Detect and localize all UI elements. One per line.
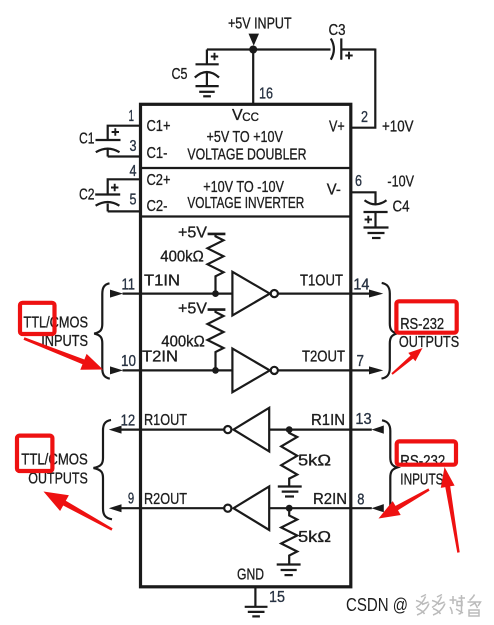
node T1IN pullup junction [212,290,219,297]
svg-text:GND: GND [237,567,264,584]
svg-text:T2IN: T2IN [142,349,178,366]
svg-text:1: 1 [129,108,135,125]
arrowhead pin 10 [110,366,123,374]
+5V input arrow down [249,34,260,46]
svg-text:C2-: C2- [147,198,168,215]
highlight box TTL inputs [20,303,55,334]
brace right outputs [382,283,397,379]
capacitor C4 [365,200,387,204]
svg-text:VOLTAGE DOUBLER: VOLTAGE DOUBLER [187,146,306,163]
resistor R 5k R1 [281,430,297,487]
capacitor C1 [108,126,141,140]
svg-text:2: 2 [361,109,368,126]
resistor R 5k R2 [281,508,297,564]
svg-text:5kΩ: 5kΩ [298,453,331,470]
svg-text:R1OUT: R1OUT [144,412,187,429]
highlight box RS-232 outputs [396,301,456,332]
node R1IN junction [286,426,293,433]
svg-text:6: 6 [355,173,362,190]
plus sign C4 [365,216,372,223]
inverter T2 triangle [232,349,269,393]
arrowhead pin 12 [109,426,122,434]
arrowhead pin 8 [372,504,384,512]
svg-text:T2OUT: T2OUT [302,349,345,366]
wire pin 6 [351,192,376,203]
wire T1IN row [123,293,233,295]
svg-text:INPUTS: INPUTS [400,471,443,488]
ground main at pin 15 [245,606,268,608]
svg-text:R2IN: R2IN [313,491,347,508]
wire right vertical to pin 2 [351,49,375,128]
resistor R 400k T2 [208,310,224,371]
ground for C4 [364,226,389,228]
svg-text:15: 15 [269,589,285,606]
svg-text:8: 8 [357,491,364,508]
wire R1IN row [269,429,372,431]
inverter T2 bubble [271,367,278,374]
svg-text:C2: C2 [79,187,95,204]
arrowhead pin 14 [369,290,383,298]
svg-text:+10V: +10V [382,119,414,136]
inverter T1 triangle [232,272,269,316]
svg-text:9: 9 [128,491,134,508]
wire R1OUT row [122,429,225,431]
+5V supply bar T1 [208,233,226,236]
capacitor C5 [206,50,208,65]
svg-text:RS-232: RS-232 [400,316,444,333]
svg-text:C4: C4 [393,199,410,216]
svg-text:T1OUT: T1OUT [300,273,343,290]
red arrow to RS-232 inputs diagonal [379,488,430,518]
svg-text:12: 12 [121,413,136,430]
plus sign C2 [111,184,118,191]
svg-text:10: 10 [121,353,136,370]
svg-text:V+: V+ [329,119,345,136]
svg-text:R1IN: R1IN [311,412,345,429]
wire pin 16 [252,50,254,104]
node T2IN pullup junction [212,367,219,374]
svg-text:+5V INPUT: +5V INPUT [228,16,292,33]
wire GND pin 15 stub [254,586,256,607]
svg-text:C1: C1 [79,131,95,148]
svg-text:CC: CC [242,112,259,124]
highlight box RS-232 inputs [397,441,456,464]
node R2IN junction [286,505,293,512]
svg-text:5kΩ: 5kΩ [298,529,331,546]
svg-text:C1-: C1- [147,145,168,162]
svg-text:C2+: C2+ [147,172,171,189]
svg-text:5: 5 [130,192,137,209]
inverter T1 bubble [271,290,278,297]
brace left outputs [94,420,113,519]
receiver R2 bubble [224,505,231,512]
svg-text:C5: C5 [172,66,188,83]
red arrow to TTL inputs [24,337,104,369]
svg-text:C1+: C1+ [147,118,171,135]
red arrow to RS-232 outputs [391,348,422,375]
svg-text:+5V: +5V [178,225,207,242]
wire +5V input rail [207,48,331,50]
ground for R1 5k [278,485,302,487]
ground for C5 [196,85,219,87]
svg-text:V-: V- [327,182,341,199]
plus sign C3 [345,52,352,59]
receiver R1 triangle [234,408,270,452]
svg-text:-10V: -10V [387,174,414,191]
divider line inverter/drivers [142,215,350,217]
svg-text:13: 13 [355,411,371,428]
svg-text:16: 16 [259,85,273,102]
wire T2IN row [123,369,233,371]
svg-text:3: 3 [130,138,137,155]
svg-text:VOLTAGE INVERTER: VOLTAGE INVERTER [187,195,304,212]
brace left inputs [94,283,110,378]
divider line doubler/inverter [142,167,350,169]
arrowhead pin 13 [372,426,384,434]
svg-text:R2OUT: R2OUT [144,491,187,508]
red arrow to TTL outputs [44,492,113,531]
capacitor C2 [108,179,141,194]
svg-text:RS-232: RS-232 [400,453,445,470]
svg-text:400kΩ: 400kΩ [160,249,204,266]
red arrow to RS-232 inputs vertical [441,467,460,553]
capacitor C3 [331,39,334,60]
highlight box TTL outputs [17,436,52,471]
svg-text:OUTPUTS: OUTPUTS [399,334,459,351]
brace right inputs [382,420,397,515]
plus sign C1 [112,128,119,135]
svg-text:C3: C3 [329,22,346,39]
wire C3 to corner [341,48,375,50]
watermark chinese glyphs [416,595,481,617]
arrowhead pin 7 [369,366,383,374]
svg-text:CSDN @: CSDN @ [346,595,408,615]
arrowhead pin 11 [110,290,123,298]
wire R2OUT row [122,507,225,509]
ground for R2 5k [277,563,301,565]
receiver R2 triangle [234,486,270,530]
svg-text:TTL/CMOS: TTL/CMOS [21,452,88,469]
+5V supply bar T2 [208,308,226,311]
plus sign C5 [111,52,372,223]
svg-text:7: 7 [357,353,365,370]
wire T2OUT row [278,369,370,371]
svg-text:14: 14 [353,277,369,294]
wire T1OUT row [278,293,370,295]
resistor R 400k T1 [208,234,224,294]
svg-text:+10V TO -10V: +10V TO -10V [203,179,284,196]
svg-text:11: 11 [122,277,136,294]
svg-text:T1IN: T1IN [144,273,180,290]
svg-text:4: 4 [130,163,137,180]
node +5V input junction dot [249,46,257,54]
receiver R1 bubble [224,426,231,433]
watermark CSDN [346,595,408,615]
svg-text:+5V: +5V [178,301,207,318]
wire R2IN row [269,507,372,509]
IC body outline U1 [141,104,351,587]
arrowhead pin 9 [109,504,122,512]
svg-text:+5V TO +10V: +5V TO +10V [207,129,284,146]
